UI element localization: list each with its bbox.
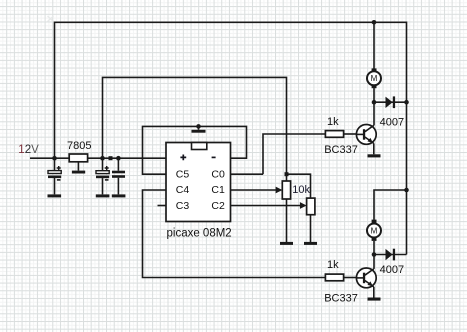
IC notch [192, 143, 207, 150]
wire 7805 ground drop [77, 162, 79, 171]
wire R2 to Q2 base [344, 277, 357, 279]
ground bar under C3 [112, 194, 126, 197]
node square on 5V rail [109, 156, 113, 160]
wire 7805 output to IC + pin [88, 157, 166, 159]
capacitor C2 plus sign [105, 166, 109, 170]
resistor R2 1k body [325, 274, 343, 281]
motor M2 [367, 220, 381, 241]
node dot D1 cathode to rail [404, 100, 409, 105]
wire diode D2 row [374, 254, 407, 256]
ground bar under VR1 [280, 242, 293, 245]
capacitor C2 positive plate [96, 171, 109, 174]
ground bar under Q2 emitter [368, 298, 381, 301]
pot VR1 wiper arrowhead [276, 187, 283, 194]
capacitor C3 plate 2 [112, 175, 125, 178]
svg-text:C5: C5 [176, 168, 190, 180]
wire Q1 collector [373, 102, 375, 125]
resistor R1 1k body [325, 131, 343, 138]
wire C4 pin to base resistor R2 [143, 190, 326, 278]
wire R1 to Q1 base [344, 133, 357, 135]
capacitor C3 plate 1 [112, 171, 125, 174]
wire cap C1 drop [54, 158, 56, 194]
ground bar under C2 [96, 194, 110, 197]
svg-text:C2: C2 [211, 200, 225, 212]
node dot M1/D1/Q1 collector [372, 100, 377, 105]
svg-text:BC337: BC337 [324, 292, 358, 304]
wire Q2 emitter to ground [373, 287, 375, 298]
wire cap C3 drop [117, 158, 119, 194]
IC minus pin symbol [212, 156, 216, 158]
wire IC ground loop (C5 pin to - pin via top ground rail) [143, 126, 247, 174]
svg-text:1k: 1k [327, 116, 339, 128]
wire C0 pin [231, 173, 264, 175]
node dot right rail at motor M2 [404, 188, 409, 193]
svg-text:M: M [371, 226, 378, 235]
IC plus pin symbol [180, 155, 186, 161]
transistor Q2 BC337 [356, 268, 376, 288]
node dot top rail at motor M1 [372, 20, 377, 25]
wire pot node to VR2 top [287, 174, 311, 198]
svg-text:4007: 4007 [380, 117, 404, 129]
ground bar under VR2 [304, 242, 317, 245]
wire C2 pin to pot VR2 wiper [231, 205, 302, 207]
capacitor C1 plus sign [57, 166, 61, 170]
wire 5V feed to pot tops (node B) [103, 77, 287, 174]
diode D1 4007 [386, 96, 396, 108]
svg-text:1k: 1k [327, 259, 339, 271]
wire pot VR1 top [286, 174, 288, 181]
node dot 5V rail at cap C3 [116, 156, 121, 161]
wire top +12V rail with left and right drops [55, 22, 407, 254]
faint eraser smudge [48, 16, 54, 22]
svg-text:C4: C4 [176, 184, 190, 196]
node dot 12V rail at cap C1 [52, 156, 57, 161]
ground bar under Q1 emitter [368, 154, 381, 157]
wire diode D1 row [374, 101, 407, 103]
node square pot top node [285, 172, 289, 176]
transistor Q1 BC337 [356, 124, 376, 144]
node dot ground tag [196, 124, 201, 129]
regulator U2 7805 body [69, 154, 87, 162]
node dot M2/D2/Q2 collector [372, 252, 377, 257]
svg-text:10k: 10k [292, 184, 310, 196]
ground tag stub on IC ground rail [198, 126, 200, 129]
capacitor C2 minus sign [105, 179, 109, 181]
capacitor C1 positive plate [48, 171, 61, 174]
ground bar under 7805 [72, 171, 85, 174]
pot VR2 body [307, 198, 315, 215]
wire pot VR2 bottom to ground [310, 215, 312, 242]
diode D2 4007 [386, 249, 396, 261]
wire 12V input to 7805 [30, 157, 69, 159]
capacitor C2 negative plate [96, 176, 109, 179]
wire C1 pin to pot VR1 wiper [231, 189, 278, 191]
wire motor M2 bottom to collector node [373, 241, 375, 255]
svg-text:C3: C3 [176, 200, 190, 212]
wire cap C2 drop [102, 158, 104, 194]
svg-text:M: M [371, 74, 378, 83]
svg-text:7805: 7805 [67, 140, 91, 152]
node dot 5V rail at cap C2 [100, 156, 105, 161]
svg-text:picaxe 08M2: picaxe 08M2 [167, 228, 232, 240]
wire pot VR1 bottom to ground [286, 199, 288, 242]
ground bar IC rail tag [192, 130, 206, 133]
wire Q1 emitter to ground [373, 143, 375, 154]
svg-text:12V: 12V [18, 144, 39, 156]
svg-text:4007: 4007 [380, 264, 404, 276]
capacitor C1 negative plate [48, 176, 61, 179]
wire motor M1 bottom to collector node [373, 88, 375, 102]
motor M1 [367, 68, 381, 88]
svg-text:C0: C0 [211, 168, 225, 180]
ground bar under C1 [48, 194, 62, 197]
wire C0 to base resistor R1 [263, 134, 325, 174]
pot VR2 wiper arrowhead [300, 202, 307, 209]
svg-text:BC337: BC337 [324, 144, 358, 156]
pot VR1 body [282, 181, 290, 199]
wire motor M2 top feed from right rail [374, 190, 407, 220]
wire motor M1 top feed [373, 22, 375, 68]
wire C3 stub [158, 205, 167, 207]
capacitor C1 minus sign [57, 179, 61, 181]
wire Q2 collector [373, 255, 375, 269]
IC U1 picaxe 08M2 body [166, 143, 231, 222]
svg-text:C1: C1 [211, 184, 225, 196]
